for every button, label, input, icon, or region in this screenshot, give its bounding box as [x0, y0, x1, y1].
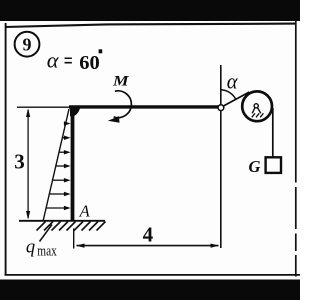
frame left border [5, 23, 7, 276]
moment arrowhead [108, 116, 120, 123]
svg-text:G: G [249, 157, 261, 176]
dimension 3 upper arrowhead [26, 108, 30, 117]
column [71, 107, 75, 221]
dimension 3 lower arrowhead [26, 211, 30, 220]
load arrow 7 [46, 207, 64, 209]
load arrow 1 [64, 123, 66, 125]
svg-text:60: 60 [79, 52, 100, 74]
frame bottom border [5, 274, 301, 276]
weight G box [266, 157, 281, 173]
rope from pulley down to weight [272, 108, 274, 157]
load arrow 3 [59, 151, 64, 153]
ground hatching [37, 222, 106, 231]
distributed load slope line [43, 109, 69, 221]
svg-text:q: q [26, 238, 35, 258]
svg-text:max: max [37, 244, 57, 260]
svg-text:M: M [112, 74, 130, 90]
rope from hinge to pulley [223, 92, 250, 107]
svg-text:A: A [79, 201, 91, 220]
load arrow 4 [56, 165, 64, 167]
dimension 3 line [27, 110, 29, 218]
svg-text:9: 9 [23, 35, 32, 55]
vertical reference line through hinge [220, 65, 222, 248]
corner fillet [70, 106, 80, 117]
svg-text:4: 4 [143, 223, 154, 247]
problem number circle 9 [15, 32, 40, 57]
dimension 4 line [77, 245, 219, 247]
bottom black band [0, 280, 300, 300]
frame right border [295, 21, 297, 277]
pulley [242, 91, 272, 121]
dimension 4 right arrowhead [211, 244, 220, 248]
beam top-left extension line [17, 106, 70, 108]
svg-text:α: α [227, 68, 238, 93]
top black band [0, 0, 300, 21]
hinge circle at beam end [218, 105, 224, 111]
svg-text:3: 3 [14, 150, 24, 174]
beam [69, 105, 219, 108]
angle alpha arc [221, 90, 236, 100]
moment M arc [114, 91, 132, 118]
load arrow 2 [62, 137, 64, 139]
pulley axle pin [254, 104, 258, 108]
q_max leader line [40, 225, 53, 242]
load arrow 5 [53, 179, 64, 181]
load arrow 6 [49, 193, 64, 195]
dimension 4 left arrowhead [76, 244, 85, 248]
svg-text:=: = [64, 48, 73, 73]
svg-text:α: α [47, 47, 59, 72]
frame top border [5, 24, 296, 27]
ground line at support A [19, 220, 105, 222]
dimension 4 left extension line [73, 229, 75, 249]
